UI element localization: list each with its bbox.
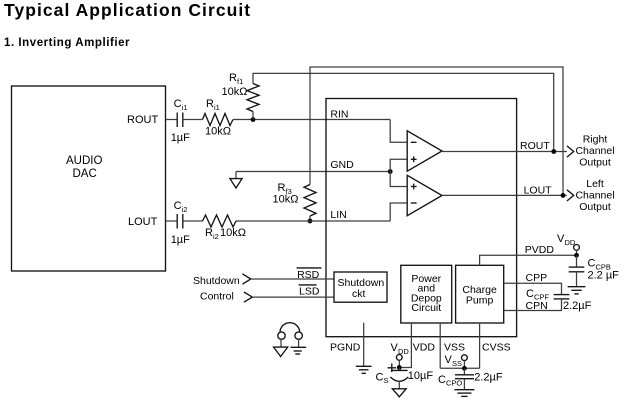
svg-text:1µF: 1µF: [171, 132, 190, 144]
svg-text:i1: i1: [214, 103, 220, 112]
svg-text:CPO: CPO: [446, 379, 462, 388]
svg-text:VSS: VSS: [444, 342, 465, 354]
wire CVSS pin: [479, 323, 481, 369]
svg-text:RIN: RIN: [330, 109, 348, 121]
capacitor Ci2: [176, 214, 178, 229]
svg-text:PGND: PGND: [330, 342, 361, 354]
op-amp A1 (right channel): [407, 131, 442, 171]
svg-text:CPN: CPN: [526, 300, 548, 312]
svg-text:2.2µF: 2.2µF: [474, 372, 503, 384]
wire Rf3 feedback to LOUT node: [310, 67, 563, 195]
headphone jack symbol: arc: [280, 323, 300, 333]
svg-text:LOUT: LOUT: [128, 216, 158, 228]
svg-text:Control: Control: [200, 290, 234, 302]
svg-text:CPP: CPP: [526, 272, 548, 284]
wire Rf1 bottom stub: [252, 112, 254, 120]
output chevron right channel: [567, 146, 574, 157]
input chevron RSD: [242, 274, 250, 284]
svg-text:2.2µF: 2.2µF: [563, 300, 592, 312]
svg-text:R: R: [278, 182, 286, 194]
wire Ri1 to RIN pin: [233, 119, 390, 121]
svg-text:C: C: [438, 374, 446, 386]
svg-text:R: R: [229, 72, 237, 84]
wire GND to opamp2 noninverting input: [390, 172, 407, 187]
svg-text:RSD: RSD: [297, 269, 320, 281]
node junction PVDD/Ccpb: [574, 253, 579, 258]
svg-text:10kΩ: 10kΩ: [273, 194, 299, 206]
wire VSS pin: [439, 323, 441, 369]
wire Rf1 feedback to ROUT node: [253, 73, 554, 151]
ground symbol Ccpb: [568, 286, 586, 288]
svg-text:CVSS: CVSS: [482, 342, 511, 354]
node junction Rf3/LIN: [308, 219, 313, 224]
svg-text:Right: Right: [583, 134, 608, 146]
op-amp A2 (left channel): [407, 175, 442, 215]
svg-text:R: R: [206, 98, 214, 110]
wire Ci1 to Ri1: [183, 119, 203, 121]
svg-text:Left: Left: [586, 178, 604, 190]
wire Ci2 to Ri2: [183, 220, 203, 222]
wire opamp2 output to LOUT terminal: [442, 194, 567, 196]
wire PGND: [363, 323, 365, 367]
svg-text:C: C: [588, 258, 596, 270]
capacitor Ccpf: [554, 294, 570, 296]
svg-text:ROUT: ROUT: [127, 114, 158, 126]
capacitor Ccpo: [463, 368, 465, 375]
node junction GND branch: [388, 169, 393, 174]
output chevron left channel: [567, 190, 574, 201]
plus sign (Cs polarity): [388, 367, 397, 369]
headphone right lead: [298, 339, 300, 347]
svg-text:C: C: [526, 288, 534, 300]
resistor Rf3: [304, 185, 316, 216]
headphone left terminal circle: [278, 332, 285, 339]
svg-text:LSD: LSD: [299, 285, 320, 297]
svg-text:GND: GND: [330, 159, 354, 171]
svg-text:DAC: DAC: [73, 168, 97, 180]
svg-text:1µF: 1µF: [171, 234, 190, 246]
svg-text:i1: i1: [182, 103, 188, 112]
opamp2 minus symbol: [411, 202, 417, 204]
svg-text:i2: i2: [213, 232, 219, 241]
ground flag stub: [235, 172, 237, 179]
capacitor Ccpb: [576, 255, 578, 267]
svg-text:10kΩ: 10kΩ: [220, 227, 246, 239]
wire GND to opamp1 noninverting input: [390, 159, 407, 171]
svg-text:10µF: 10µF: [408, 370, 434, 382]
node junction Ri1/Rf1/RIN: [251, 117, 256, 122]
svg-text:Channel: Channel: [575, 189, 614, 201]
svg-text:ckt: ckt: [352, 288, 366, 300]
svg-text:AUDIO: AUDIO: [66, 155, 102, 167]
headphone analog ground (open triangle): [274, 347, 288, 356]
svg-text:10kΩ: 10kΩ: [222, 86, 248, 98]
resistor Ri1: [203, 114, 234, 126]
opamp2 plus symbol: [411, 186, 417, 188]
wire Ri2 to LIN pin: [236, 220, 390, 222]
wire DAC ROUT to Ci1: [166, 119, 178, 121]
wire RIN to opamp1 inverting input: [390, 120, 407, 143]
ground symbol Ccpo: [454, 389, 474, 391]
node junction ROUT/feedback: [551, 149, 556, 154]
wire GND pin to ground flag: [236, 171, 390, 173]
svg-text:Pump: Pump: [466, 294, 494, 306]
wire LSD input: [252, 296, 334, 298]
headphone ground symbol: [290, 346, 306, 348]
svg-text:i2: i2: [182, 205, 188, 214]
ground symbol PGND: [356, 365, 372, 367]
svg-text:Typical Application Circuit: Typical Application Circuit: [4, 0, 251, 20]
svg-text:2.2 µF: 2.2 µF: [588, 270, 620, 282]
wire VSS to CVSS: [440, 367, 479, 369]
node junction VDD/Cs: [397, 365, 402, 370]
svg-text:S: S: [384, 376, 389, 385]
node junction LOUT/feedback: [561, 193, 566, 198]
analog ground (open triangle): [392, 389, 406, 397]
wire VDD pin down and left: [399, 323, 411, 368]
shutdown ckt block: [334, 272, 387, 302]
wire LIN to opamp2 inverting input: [390, 203, 407, 221]
wire PVDD pin: [480, 255, 577, 265]
charge pump block: [456, 265, 504, 323]
wire CPN pin: [504, 299, 562, 311]
svg-text:10kΩ: 10kΩ: [205, 126, 231, 138]
svg-text:C: C: [376, 371, 384, 383]
svg-text:LIN: LIN: [330, 209, 346, 221]
power and depop circuit block: [401, 265, 452, 323]
svg-text:R: R: [205, 227, 213, 239]
audio dac box: [12, 86, 166, 271]
svg-text:ROUT: ROUT: [520, 140, 550, 152]
capacitor Ci1: [176, 113, 178, 128]
svg-text:1. Inverting Amplifier: 1. Inverting Amplifier: [4, 37, 130, 49]
headphone left lead: [280, 339, 282, 347]
svg-text:Output: Output: [579, 201, 611, 213]
svg-text:C: C: [174, 200, 182, 212]
wire Rf3 to LIN wire: [309, 216, 311, 221]
svg-text:Shutdown: Shutdown: [193, 275, 240, 287]
svg-text:LOUT: LOUT: [524, 184, 553, 196]
svg-text:Channel: Channel: [575, 145, 614, 157]
resistor Ri2: [203, 215, 237, 227]
svg-text:Circuit: Circuit: [411, 302, 441, 314]
opamp1 plus symbol: [411, 158, 417, 160]
wire RSD input: [251, 278, 334, 280]
ground flag (open triangle): [230, 179, 242, 188]
opamp1 minus symbol: [411, 141, 417, 143]
svg-text:SS: SS: [452, 359, 462, 368]
capacitor Cs (polarized): [398, 368, 400, 371]
svg-text:PVDD: PVDD: [525, 244, 555, 256]
IC package outline U1: [326, 99, 517, 337]
wire opamp1 output to ROUT terminal: [442, 151, 567, 153]
wire CPP pin: [504, 283, 562, 294]
svg-text:f1: f1: [237, 77, 243, 86]
svg-text:Output: Output: [579, 157, 611, 169]
wire DAC LOUT to Ci2: [166, 220, 178, 222]
svg-text:VDD: VDD: [413, 342, 436, 354]
node junction VSS/Ccpo: [462, 366, 467, 371]
svg-text:C: C: [174, 98, 182, 110]
headphone right terminal circle: [295, 332, 302, 339]
resistor Rf1: [247, 84, 259, 112]
input chevron LSD: [244, 292, 252, 302]
